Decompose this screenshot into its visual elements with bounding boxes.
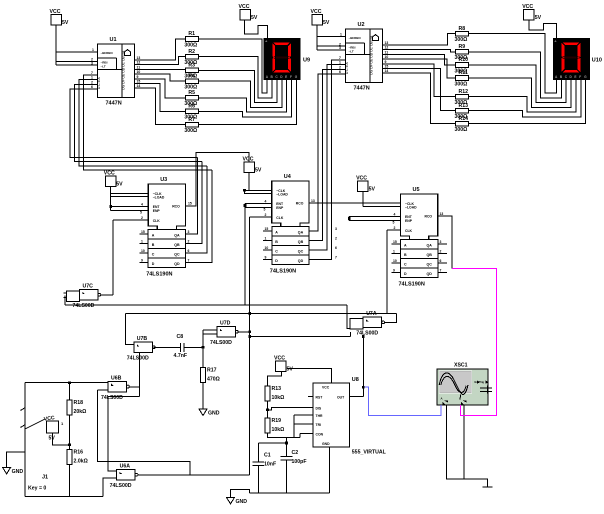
svg-text:7: 7: [440, 269, 442, 273]
svg-text:6: 6: [188, 249, 190, 253]
svg-text:10: 10: [137, 70, 141, 74]
svg-text:F: F: [579, 75, 581, 79]
svg-text:R12: R12: [459, 89, 469, 95]
svg-text:5V: 5V: [535, 15, 542, 21]
svg-text:ENP: ENP: [276, 206, 284, 210]
svg-text:U6B: U6B: [111, 375, 122, 381]
svg-text:74LS00D: 74LS00D: [110, 483, 132, 489]
svg-text:3: 3: [339, 46, 341, 50]
svg-text:QC: QC: [427, 262, 433, 266]
svg-text:3: 3: [335, 227, 337, 231]
svg-text:74LS190N: 74LS190N: [399, 282, 425, 288]
svg-text:~LOAD: ~LOAD: [405, 206, 417, 210]
svg-text:12: 12: [137, 61, 141, 65]
svg-text:13: 13: [385, 41, 389, 45]
svg-text:13: 13: [137, 56, 141, 60]
svg-text:~LT: ~LT: [101, 65, 106, 69]
svg-text:VCC: VCC: [104, 170, 115, 176]
svg-text:CLK: CLK: [276, 216, 284, 220]
svg-text:E: E: [285, 75, 287, 79]
svg-text:11: 11: [385, 50, 389, 54]
svg-text:C: C: [404, 262, 407, 266]
svg-text:R10: R10: [459, 57, 469, 63]
svg-text:C8: C8: [177, 334, 184, 340]
svg-text:~LOAD: ~LOAD: [276, 193, 288, 197]
svg-text:6: 6: [335, 246, 337, 250]
svg-text:6: 6: [91, 85, 93, 89]
svg-text:300Ω: 300Ω: [455, 37, 468, 43]
svg-text:U4: U4: [284, 174, 292, 180]
svg-text:U8: U8: [352, 377, 359, 383]
svg-text:R13: R13: [459, 103, 469, 109]
svg-text:B: B: [275, 240, 278, 244]
svg-text:R3: R3: [188, 63, 195, 69]
svg-text:B: B: [404, 253, 407, 257]
svg-text:VCC: VCC: [274, 355, 285, 361]
svg-text:5V: 5V: [62, 20, 69, 26]
svg-text:6: 6: [339, 70, 341, 74]
svg-text:R5: R5: [188, 90, 195, 96]
svg-text:OUT: OUT: [337, 395, 345, 399]
svg-text:2: 2: [188, 240, 190, 244]
svg-text:U7B: U7B: [137, 336, 148, 342]
svg-text:DIS: DIS: [316, 407, 322, 411]
svg-text:15: 15: [265, 227, 269, 231]
svg-text:C1: C1: [264, 453, 271, 459]
svg-text:5V: 5V: [251, 15, 258, 21]
svg-text:15: 15: [137, 80, 141, 84]
svg-text:CON: CON: [316, 433, 324, 437]
svg-text:2: 2: [335, 237, 337, 241]
svg-text:QC: QC: [174, 252, 180, 256]
svg-text:74LS00D: 74LS00D: [210, 340, 232, 346]
svg-text:QA: QA: [174, 233, 180, 237]
svg-text:VCC: VCC: [311, 9, 322, 15]
svg-text:15: 15: [141, 230, 145, 234]
svg-text:1: 1: [339, 61, 341, 65]
svg-text:1: 1: [141, 240, 143, 244]
svg-text:9: 9: [141, 259, 143, 263]
svg-text:470Ω: 470Ω: [207, 377, 220, 383]
svg-text:14: 14: [137, 84, 141, 88]
svg-text:74LS00D: 74LS00D: [356, 331, 378, 337]
svg-text:74LS00D: 74LS00D: [127, 356, 149, 362]
svg-text:E: E: [574, 75, 576, 79]
svg-text:10kΩ: 10kΩ: [272, 427, 285, 433]
svg-text:TRI: TRI: [316, 423, 322, 427]
svg-text:VCC: VCC: [356, 176, 367, 182]
svg-text:~LOAD: ~LOAD: [153, 196, 165, 200]
svg-text:VCC: VCC: [50, 9, 61, 15]
svg-text:300Ω: 300Ω: [455, 81, 468, 87]
svg-text:4: 4: [265, 200, 267, 204]
svg-text:VCC: VCC: [239, 4, 250, 10]
svg-text:OG OF OE OD OC OB OA: OG OF OE OD OC OB OA: [370, 35, 374, 75]
svg-text:U7D: U7D: [220, 321, 231, 327]
svg-text:R4: R4: [188, 73, 195, 79]
svg-text:RCO: RCO: [296, 202, 304, 206]
svg-text:9: 9: [265, 256, 267, 260]
svg-text:R17: R17: [207, 368, 217, 374]
svg-text:R16: R16: [74, 449, 84, 455]
svg-text:5V: 5V: [369, 187, 376, 193]
svg-text:11: 11: [137, 65, 141, 69]
svg-text:QA: QA: [298, 230, 304, 234]
svg-text:10: 10: [141, 249, 145, 253]
svg-text:A: A: [152, 233, 155, 237]
svg-text:R8: R8: [459, 26, 466, 32]
svg-text:R11: R11: [459, 70, 468, 76]
svg-text:C: C: [275, 249, 278, 253]
svg-text:R19: R19: [272, 418, 282, 424]
svg-text:B: B: [152, 243, 155, 247]
svg-text:RCO: RCO: [172, 205, 180, 209]
svg-text:U1: U1: [110, 37, 117, 43]
svg-text:74LS00D: 74LS00D: [101, 395, 123, 401]
svg-text:A: A: [441, 397, 443, 401]
svg-text:VCC: VCC: [322, 385, 330, 389]
svg-text:C2: C2: [292, 450, 299, 456]
svg-text:R2: R2: [188, 49, 195, 55]
svg-text:R7: R7: [188, 117, 195, 123]
svg-text:3: 3: [440, 240, 442, 244]
svg-text:300Ω: 300Ω: [184, 42, 197, 48]
svg-text:12: 12: [385, 46, 389, 50]
svg-text:4.7nF: 4.7nF: [174, 353, 188, 359]
svg-text:4: 4: [394, 213, 396, 217]
svg-text:~BI/RBO: ~BI/RBO: [101, 51, 114, 55]
svg-text:555_VIRTUAL: 555_VIRTUAL: [352, 450, 387, 456]
svg-text:U9: U9: [303, 58, 310, 64]
svg-text:GND: GND: [236, 499, 248, 505]
svg-text:GND: GND: [12, 469, 24, 475]
svg-text:R13: R13: [272, 386, 282, 392]
svg-text:7: 7: [335, 256, 337, 260]
svg-text:9: 9: [393, 269, 395, 273]
svg-text:3: 3: [91, 61, 93, 65]
svg-text:2: 2: [394, 226, 396, 230]
svg-text:10: 10: [393, 259, 397, 263]
svg-text:U6A: U6A: [120, 464, 131, 470]
svg-text:QA: QA: [427, 243, 433, 247]
svg-text:15: 15: [385, 65, 389, 69]
svg-text:CLK: CLK: [153, 219, 161, 223]
svg-text:5: 5: [140, 210, 142, 214]
svg-text:QB: QB: [427, 253, 433, 257]
svg-text:74LS190N: 74LS190N: [146, 272, 172, 278]
svg-text:THR: THR: [316, 414, 324, 418]
svg-text:U3: U3: [160, 177, 167, 183]
svg-text:5V: 5V: [287, 366, 294, 372]
svg-text:14: 14: [385, 69, 389, 73]
svg-text:9: 9: [385, 60, 387, 64]
svg-text:9: 9: [137, 75, 139, 79]
svg-text:2: 2: [91, 80, 93, 84]
svg-text:1: 1: [340, 33, 342, 37]
svg-text:D: D: [404, 272, 407, 276]
svg-text:15: 15: [188, 202, 192, 206]
svg-text:QB: QB: [298, 240, 304, 244]
svg-text:~LT: ~LT: [349, 50, 354, 54]
svg-text:7: 7: [339, 56, 341, 60]
svg-text:J1: J1: [42, 475, 48, 481]
svg-text:7447N: 7447N: [106, 101, 122, 107]
svg-text:15: 15: [393, 240, 397, 244]
svg-text:GND: GND: [322, 442, 330, 446]
svg-text:13: 13: [440, 212, 444, 216]
svg-text:RCO: RCO: [425, 215, 433, 219]
svg-text:F: F: [290, 75, 292, 79]
svg-text:10kΩ: 10kΩ: [272, 395, 285, 401]
svg-text:D: D: [152, 262, 155, 266]
svg-text:10nF: 10nF: [264, 462, 276, 468]
svg-text:U7C: U7C: [83, 284, 94, 290]
svg-text:VCC: VCC: [522, 4, 533, 10]
svg-text:U5: U5: [413, 187, 420, 193]
svg-text:300Ω: 300Ω: [184, 128, 197, 134]
svg-text:74LS190N: 74LS190N: [270, 269, 296, 275]
svg-text:7: 7: [91, 71, 93, 75]
svg-text:D C B A: D C B A: [345, 61, 349, 74]
svg-text:R14: R14: [459, 116, 469, 122]
svg-text:5: 5: [264, 207, 266, 211]
svg-text:D C B A: D C B A: [97, 76, 101, 89]
svg-text:OG OF OE OD OC OB OA: OG OF OE OD OC OB OA: [122, 50, 126, 90]
svg-text:U10: U10: [592, 58, 602, 64]
svg-text:2: 2: [440, 250, 442, 254]
svg-text:R9: R9: [459, 44, 466, 50]
svg-text:3: 3: [188, 230, 190, 234]
svg-text:R1: R1: [188, 31, 195, 37]
svg-text:QB: QB: [174, 243, 180, 247]
svg-text:300Ω: 300Ω: [455, 127, 468, 133]
svg-text:6: 6: [440, 259, 442, 263]
svg-text:QC: QC: [298, 249, 304, 253]
svg-text:GND: GND: [208, 411, 220, 417]
svg-text:QD: QD: [298, 259, 304, 263]
svg-text:B: B: [459, 397, 461, 401]
svg-text:1: 1: [92, 48, 94, 52]
svg-text:2: 2: [339, 65, 341, 69]
svg-text:7: 7: [188, 259, 190, 263]
svg-text:74LS00D: 74LS00D: [73, 303, 95, 309]
svg-text:XSC1: XSC1: [454, 363, 468, 369]
svg-text:ENP: ENP: [405, 219, 413, 223]
svg-text:5: 5: [393, 220, 395, 224]
svg-text:R6: R6: [188, 104, 195, 110]
svg-text:2.0kΩ: 2.0kΩ: [74, 458, 88, 464]
svg-text:D: D: [275, 259, 278, 263]
svg-text:Key = 0: Key = 0: [28, 486, 46, 492]
svg-text:4: 4: [141, 203, 143, 207]
svg-text:ENP: ENP: [153, 209, 161, 213]
svg-text:1: 1: [265, 237, 267, 241]
svg-text:5V: 5V: [255, 167, 262, 173]
svg-text:C: C: [152, 252, 155, 256]
svg-text:R18: R18: [74, 400, 84, 406]
svg-text:2: 2: [265, 213, 267, 217]
svg-text:20kΩ: 20kΩ: [74, 409, 87, 415]
svg-text:CLK: CLK: [405, 229, 413, 233]
svg-text:QD: QD: [427, 272, 433, 276]
svg-text:7447N: 7447N: [354, 86, 370, 92]
svg-text:13: 13: [311, 199, 315, 203]
svg-text:1: 1: [393, 250, 395, 254]
svg-text:VCC: VCC: [243, 156, 254, 162]
svg-text:2: 2: [141, 216, 143, 220]
svg-text:A: A: [275, 230, 278, 234]
svg-text:U2: U2: [358, 22, 365, 28]
svg-text:QD: QD: [174, 262, 180, 266]
svg-text:~BI/RBO: ~BI/RBO: [349, 36, 362, 40]
svg-text:5V: 5V: [116, 181, 123, 187]
svg-text:100pF: 100pF: [292, 459, 307, 465]
svg-text:RST: RST: [316, 395, 324, 399]
svg-text:A: A: [404, 243, 407, 247]
svg-text:1: 1: [91, 76, 93, 80]
svg-text:U7A: U7A: [366, 311, 377, 317]
svg-text:5V: 5V: [323, 20, 330, 26]
svg-text:10: 10: [385, 55, 389, 59]
svg-text:10: 10: [265, 246, 269, 250]
